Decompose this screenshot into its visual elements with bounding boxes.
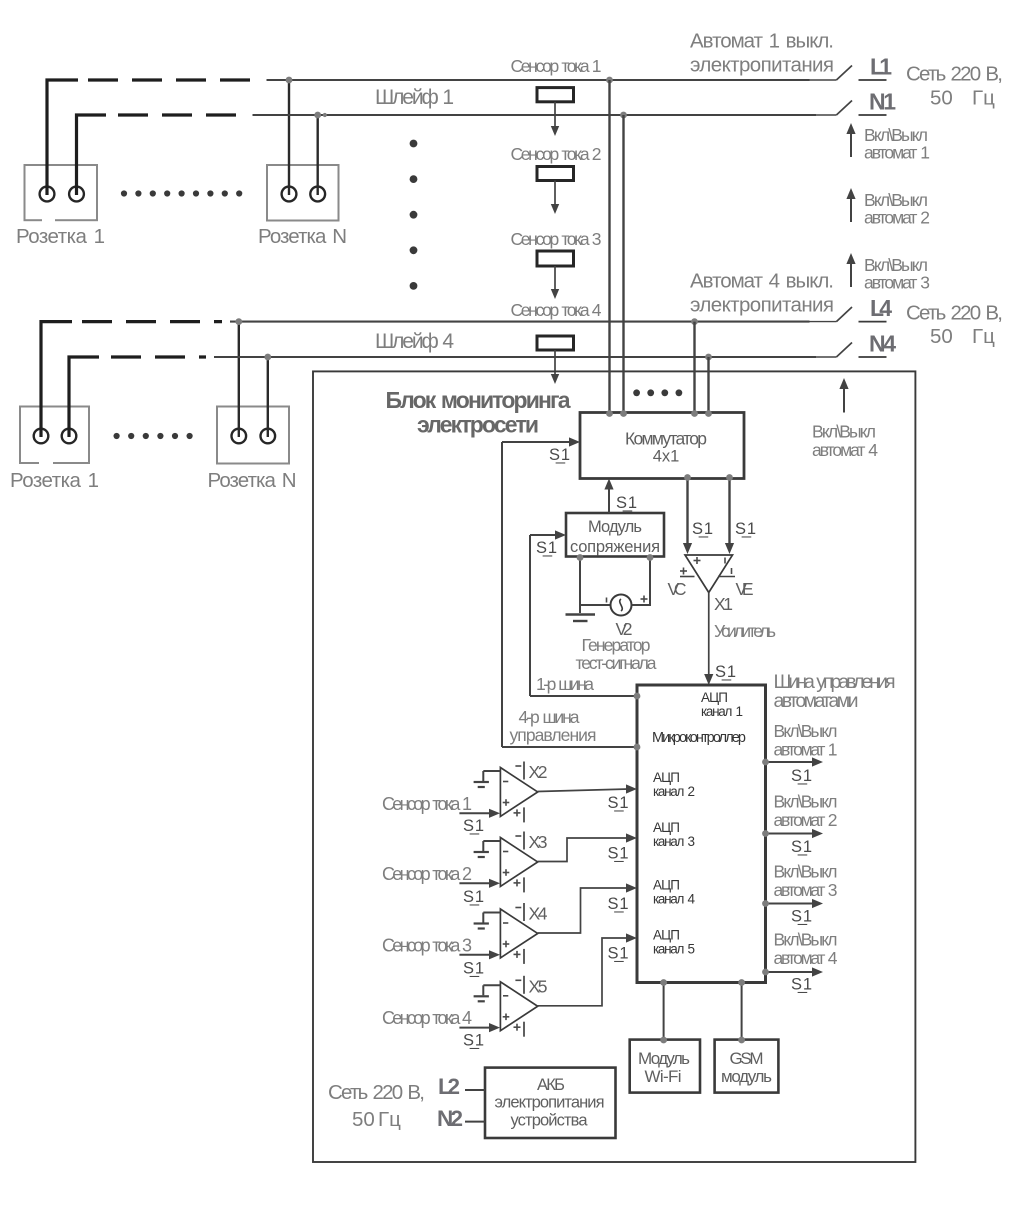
dashed wire loop4 N [111, 355, 206, 358]
svg-text:Вкл\Выкл: Вкл\Выкл [812, 422, 876, 442]
plus sign at X4 strobe [514, 953, 521, 955]
svg-text:канал 3: канал 3 [653, 834, 695, 849]
wire loop1 N line [253, 114, 817, 116]
svg-text:канал 1: канал 1 [701, 704, 743, 719]
svg-text:электропитания: электропитания [690, 294, 834, 317]
svg-text:Гц: Гц [378, 1108, 401, 1131]
top strobe bar at X5 [523, 976, 525, 994]
ground symbol at X5 [474, 995, 489, 997]
junction module left pin [577, 554, 584, 561]
svg-text:АЦП: АЦП [653, 878, 680, 893]
plus sign inside X3 [503, 872, 510, 874]
bus wire from loop4 L to commutator [693, 322, 695, 412]
svg-text:S_1: S_1 [735, 520, 756, 538]
ellipsis dots between sockets (loop 1) [121, 190, 127, 196]
junction bus wires at commutator top [606, 410, 613, 417]
svg-text:S_1: S_1 [608, 945, 629, 963]
monitoring unit enclosure box [313, 371, 915, 1162]
socket pin circles Розетка 1 (loop 4) [34, 429, 49, 444]
op-amp X3 triangle [500, 838, 537, 887]
output wire X3 to ADC [538, 838, 629, 862]
bottom strobe bar at X5 [523, 1022, 525, 1037]
minus tick at VE [731, 568, 733, 574]
svg-text:электропитания: электропитания [495, 1094, 605, 1112]
svg-text:Розетка 1: Розетка 1 [10, 469, 99, 492]
output wire X4 to ADC [538, 888, 629, 933]
svg-text:автомат 3: автомат 3 [774, 880, 838, 900]
svg-text:S_1: S_1 [791, 908, 812, 926]
op-amp X4 triangle [500, 909, 537, 958]
svg-text:X5: X5 [529, 976, 548, 996]
ground symbol at X2 [474, 781, 489, 783]
svg-text:S_1: S_1 [692, 520, 713, 538]
socket pin circles Розетка 1 (loop 1) [40, 187, 55, 202]
junction loop1 N / bus wire [620, 112, 627, 119]
junction at GSM module top [738, 1037, 745, 1044]
wire 4-wire bus to microcontroller [502, 746, 637, 748]
svg-text:X4: X4 [529, 904, 548, 924]
svg-text:канал 5: канал 5 [653, 942, 695, 957]
plus sign inside X1 [694, 560, 701, 562]
svg-text:АКБ: АКБ [537, 1076, 565, 1094]
generator V2 circle [611, 595, 632, 616]
output wire Вкл\Выкл автомат 3 [766, 903, 814, 905]
svg-text:S_1: S_1 [463, 817, 484, 835]
svg-text:1-р шина: 1-р шина [536, 674, 594, 694]
junction microcontroller output 1 [762, 759, 769, 766]
ground symbol at X4 [474, 922, 489, 924]
ground symbol at X3 [474, 851, 489, 853]
plus sign inside X2 [503, 802, 510, 804]
control arrow Вкл\Выкл автомат 2 [850, 196, 852, 222]
svg-text:сопряжения: сопряжения [570, 538, 660, 556]
socket pin circles Розетка N (loop 1) [282, 187, 297, 202]
dashed wire loop1 N [118, 113, 236, 116]
svg-text:Сенсор тока 4: Сенсор тока 4 [511, 300, 602, 320]
ground wire at X2 [483, 770, 500, 772]
svg-text:X3: X3 [529, 832, 548, 852]
junction at microcontroller bottom (Wi-Fi) [660, 979, 667, 986]
svg-text:Сенсор тока 4: Сенсор тока 4 [382, 1008, 472, 1028]
junction loop1 L / Розетка N [286, 77, 293, 84]
junction microcontroller output 4 [762, 969, 769, 976]
svg-text:Розетка N: Розетка N [208, 469, 297, 492]
socket box Розетка 1 (loop 4) [20, 407, 89, 464]
junction at microcontroller bottom (GSM) [738, 979, 745, 986]
svg-text:S_1: S_1 [463, 1032, 484, 1050]
current sensor 2 body [537, 167, 574, 181]
junction loop4 L / Розетка N [235, 318, 242, 325]
bottom strobe bar at X2 [523, 807, 525, 822]
svg-text:Вкл\Выкл: Вкл\Выкл [774, 862, 838, 882]
svg-text:электропитания: электропитания [690, 54, 834, 77]
svg-text:Автомат 1 выкл.: Автомат 1 выкл. [690, 30, 834, 53]
top strobe bar at X2 [523, 762, 525, 780]
svg-text:S_1: S_1 [715, 663, 736, 681]
current sensor 4 body [537, 336, 574, 350]
junction loop1 L / bus wire [606, 77, 613, 84]
svg-text:Сеть 220 В,: Сеть 220 В, [328, 1081, 425, 1104]
svg-text:S_1: S_1 [616, 494, 637, 512]
svg-text:устройства: устройства [511, 1112, 589, 1130]
GSM module box [715, 1040, 779, 1093]
current sensor 3 output arrow [554, 266, 556, 291]
svg-text:S_1: S_1 [463, 888, 484, 906]
svg-text:автомат 2: автомат 2 [864, 208, 930, 228]
junction commutator bottom left [684, 474, 691, 481]
junction 4-wire bus at microcontroller [634, 744, 641, 751]
op-amp X2 triangle [500, 768, 537, 817]
ground symbol at generator [579, 605, 581, 613]
wire S_1 into commutator (4-wire bus) [501, 442, 503, 747]
plus sign at generator right [641, 598, 648, 600]
output wire Вкл\Выкл автомат 4 [766, 971, 814, 973]
plus sign at X2 strobe [514, 812, 521, 814]
svg-text:50: 50 [930, 325, 953, 348]
svg-text:X2: X2 [529, 762, 548, 782]
minus sign at X3 strobe [515, 835, 521, 837]
wire microcontroller to GSM module [741, 983, 743, 1040]
svg-text:модуль: модуль [721, 1067, 772, 1086]
svg-text:Розетка 1: Розетка 1 [16, 225, 105, 248]
control arrow Вкл\Выкл автомат 1 [850, 131, 852, 157]
svg-text:электросети: электросети [417, 412, 539, 438]
wire L2 to battery [465, 1089, 485, 1091]
wire Розетка N pin L up (loop 1) [288, 80, 290, 195]
plus sign inside X5 [503, 1016, 510, 1018]
junction loop4 N / bus wire [705, 354, 712, 361]
wire loop4 N line [214, 356, 816, 358]
svg-text:Шлейф 1: Шлейф 1 [375, 86, 454, 109]
svg-text:автомат 2: автомат 2 [774, 810, 838, 830]
junction commutator bottom right [726, 474, 733, 481]
svg-text:Сенсор тока 2: Сенсор тока 2 [511, 144, 602, 164]
svg-text:50: 50 [352, 1108, 375, 1131]
svg-text:автомат 3: автомат 3 [864, 273, 930, 293]
svg-text:Микроконтроллер: Микроконтроллер [652, 730, 746, 746]
junction at Wi-Fi module top [660, 1037, 667, 1044]
plus sign at X5 strobe [514, 1026, 521, 1028]
svg-text:Гц: Гц [972, 87, 995, 110]
ground wire at X4 [483, 912, 500, 914]
wire S_1 module to commutator [608, 487, 610, 513]
svg-text:L4: L4 [870, 295, 892, 321]
svg-text:канал 4: канал 4 [653, 892, 695, 907]
wire commutator to X1 VE input [728, 478, 730, 547]
Wi-Fi module box [630, 1040, 700, 1093]
input wire into X2 [459, 812, 489, 814]
output wire X2 to ADC [538, 789, 629, 792]
junction microcontroller output 2 [762, 830, 769, 837]
svg-text:Сенсор тока 2: Сенсор тока 2 [382, 864, 472, 884]
svg-text:Гц: Гц [972, 325, 995, 348]
minus sign at X5 strobe [515, 979, 521, 981]
svg-text:50: 50 [930, 87, 953, 110]
input wire into X4 [459, 954, 489, 956]
input wire into X5 [459, 1027, 489, 1029]
svg-text:Сенсор тока 1: Сенсор тока 1 [511, 56, 602, 76]
junction loop4 L / bus wire [691, 318, 698, 325]
VC bar at X1 [680, 576, 695, 578]
svg-text:X1: X1 [714, 594, 733, 614]
svg-text:S_1: S_1 [608, 845, 629, 863]
svg-text:автоматами: автоматами [774, 690, 859, 712]
svg-text:Коммутатор: Коммутатор [625, 429, 707, 449]
svg-text:АЦП: АЦП [653, 820, 680, 835]
input wire into X3 [459, 882, 489, 884]
current sensor 2 output arrow [554, 181, 556, 207]
ellipsis dots between sockets (loop 4) [114, 433, 120, 439]
svg-text:управления: управления [510, 725, 597, 745]
switch (breaker 4, N4) [816, 356, 836, 358]
current sensor 3 body [537, 251, 574, 266]
svg-text:4х1: 4х1 [653, 448, 680, 466]
wire Розетка N pin L up (loop 4) [238, 322, 240, 437]
bus wire from loop1 N to commutator [622, 115, 624, 412]
svg-text:S_1: S_1 [791, 838, 812, 856]
svg-text:Вкл\Выкл: Вкл\Выкл [774, 930, 838, 950]
wire Розетка 1 N to loop4 N line [69, 357, 99, 437]
battery box АКБ [485, 1068, 616, 1138]
socket box Розетка N (loop 1) [267, 165, 339, 221]
svg-text:S_1: S_1 [608, 895, 629, 913]
svg-text:N4: N4 [869, 331, 896, 357]
junction microcontroller output 3 [762, 900, 769, 907]
svg-text:автомат 1: автомат 1 [774, 740, 838, 760]
wire loop1 L line [267, 79, 810, 81]
socket box Розетка N (loop 4) [217, 407, 289, 464]
sine symbol inside V2 [620, 599, 623, 611]
bottom strobe bar at X4 [523, 949, 525, 964]
svg-text:АЦП: АЦП [701, 690, 728, 705]
current sensor 1 body [537, 88, 574, 102]
svg-text:Шлейф 4: Шлейф 4 [375, 330, 454, 353]
svg-text:S_1: S_1 [791, 976, 812, 994]
svg-text:Вкл\Выкл: Вкл\Выкл [774, 792, 838, 812]
junction module right pin [647, 554, 654, 561]
plus sign at X3 strobe [514, 882, 521, 884]
svg-text:Генератор: Генератор [582, 635, 651, 655]
bus wire from loop4 N to commutator [707, 357, 709, 412]
wire loop4 L line [230, 321, 810, 323]
top strobe bar at X3 [523, 832, 525, 850]
svg-text:автомат 4: автомат 4 [812, 440, 878, 460]
wire 1-wire bus to microcontroller [530, 695, 637, 697]
wire Розетка N pin N up (loop 4) [267, 357, 269, 437]
top strobe bar at X4 [523, 903, 525, 921]
minus tick inside X1 [724, 558, 726, 564]
control arrow Вкл\Выкл автомат 3 [850, 261, 852, 287]
svg-text:4-р шина: 4-р шина [519, 707, 580, 727]
minus sign inside X4 [503, 922, 508, 924]
minus sign inside X3 [503, 851, 508, 853]
bus wire from loop1 L to commutator [608, 80, 610, 412]
commutator 4x1 box [580, 413, 744, 479]
op-amp X1 triangle (pointing down) [685, 555, 733, 593]
svg-text:Модуль: Модуль [638, 1049, 690, 1068]
switch (breaker 1, L1) [810, 79, 837, 81]
svg-text:Автомат 4 выкл.: Автомат 4 выкл. [690, 270, 834, 293]
wire Розетка 1 N to loop1 N line [77, 115, 107, 195]
junction loop4 N / Розетка N [264, 354, 271, 361]
svg-text:автомат 1: автомат 1 [864, 143, 930, 163]
microcontroller box [637, 685, 766, 983]
ellipsis dots between bus wires [633, 389, 640, 396]
svg-text:Модуль: Модуль [588, 518, 642, 536]
svg-text:Розетка N: Розетка N [258, 225, 347, 248]
svg-text:Вкл\Выкл: Вкл\Выкл [774, 721, 838, 741]
svg-text:S_1: S_1 [791, 767, 812, 785]
svg-text:Сенсор тока 3: Сенсор тока 3 [511, 229, 602, 249]
svg-text:L2: L2 [438, 1074, 460, 1099]
wire interface module to generator minus [580, 556, 610, 605]
svg-text:автомат 4: автомат 4 [774, 948, 838, 968]
bottom strobe bar at X3 [523, 877, 525, 892]
wire N2 to battery [465, 1121, 485, 1123]
socket pin circles Розетка N (loop 4) [232, 429, 247, 444]
wire commutator to X1 VC input [686, 478, 688, 547]
svg-text:S_1: S_1 [536, 539, 557, 557]
wire Розетка 1 L to loop1 L line [47, 80, 78, 195]
svg-text:Сенсор тока 1: Сенсор тока 1 [382, 794, 472, 814]
wire S_1 into interface module (1-wire bus) [529, 535, 531, 696]
current sensor 1 output arrow [554, 102, 556, 128]
svg-text:Сеть 220 В,: Сеть 220 В, [906, 302, 1003, 325]
minus sign inside X2 [503, 781, 508, 783]
svg-text:GSM: GSM [730, 1049, 764, 1068]
svg-text:тест-сигнала: тест-сигнала [576, 653, 657, 673]
output wire Вкл\Выкл автомат 2 [766, 833, 814, 835]
svg-text:N1: N1 [869, 89, 896, 115]
svg-text:АЦП: АЦП [653, 770, 680, 785]
minus sign at X4 strobe [515, 907, 521, 909]
junction loop1 N / Розетка N [314, 112, 321, 119]
wire X1 output to ADC channel 1 [708, 593, 710, 678]
output wire Вкл\Выкл автомат 1 [766, 761, 814, 763]
wire Розетка 1 L to loop4 L line [41, 322, 72, 437]
VE bar at X1 [718, 576, 735, 578]
svg-text:Сеть 220 В,: Сеть 220 В, [906, 63, 1003, 86]
switch (breaker 4, L4) [810, 321, 837, 323]
control arrow Вкл\Выкл автомат 4 (inside box) [843, 386, 845, 413]
minus sign at X2 strobe [515, 765, 521, 767]
dashed wire loop1 L [88, 78, 250, 81]
svg-text:N2: N2 [437, 1106, 463, 1131]
svg-text:АЦП: АЦП [653, 928, 680, 943]
switch (breaker 1, N1) [816, 114, 836, 116]
plus sign inside X4 [503, 943, 510, 945]
wire microcontroller to Wi-Fi module [663, 983, 665, 1040]
svg-text:L1: L1 [870, 54, 892, 80]
svg-text:Блок мониторинга: Блок мониторинга [386, 387, 571, 413]
wire interface module to generator plus [632, 556, 651, 605]
svg-text:Сенсор тока 3: Сенсор тока 3 [382, 935, 472, 955]
interface module box Модуль сопряжения [566, 513, 664, 557]
minus sign inside X5 [503, 995, 508, 997]
vertical ellipsis dots (loops 2..3) [410, 140, 418, 148]
socket box Розетка 1 (loop 1) [25, 165, 98, 220]
dashed wire loop4 L [82, 320, 222, 323]
svg-text:S_1: S_1 [463, 960, 484, 978]
svg-text:Wi-Fi: Wi-Fi [645, 1067, 682, 1086]
plus sign at VC [680, 570, 687, 572]
minus tick at generator left [606, 598, 608, 603]
svg-text:VE: VE [736, 579, 754, 599]
svg-text:VC: VC [668, 579, 687, 599]
wire Розетка N pin N up (loop 1) [317, 115, 319, 195]
svg-text:канал 2: канал 2 [653, 784, 695, 799]
ground wire at X5 [483, 984, 500, 986]
svg-text:Усилитель: Усилитель [714, 621, 776, 641]
ground wire at X3 [483, 840, 500, 842]
svg-text:S_1: S_1 [549, 446, 570, 464]
current sensor 4 output arrow [554, 350, 556, 376]
svg-text:S_1: S_1 [608, 794, 629, 812]
output wire X5 to ADC [538, 938, 629, 1006]
junction 1-wire bus at microcontroller [634, 693, 641, 700]
op-amp X5 triangle [500, 982, 537, 1031]
